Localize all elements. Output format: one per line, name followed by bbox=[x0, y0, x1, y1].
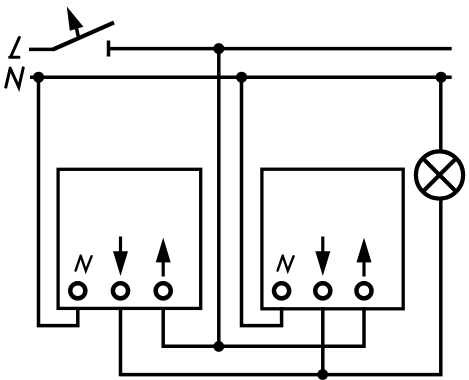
switch S1 actuator arrow bbox=[77, 29, 79, 37]
box unit 1 bbox=[58, 169, 201, 308]
label N (neutral conductor) bbox=[6, 68, 23, 87]
terminal unit1 up bbox=[156, 283, 171, 298]
wire lamp top feed bbox=[439, 77, 443, 152]
wire unit2 up terminal stub bbox=[362, 307, 366, 348]
wire N feed to unit 1 bbox=[39, 77, 78, 325]
node N tap 1 bbox=[33, 72, 44, 83]
arrow down unit 1 bbox=[119, 237, 122, 254]
node N tap 2 bbox=[236, 72, 247, 83]
wire down-terminal bus with lamp drop bbox=[121, 199, 441, 375]
wire unit2 down terminal stub bbox=[321, 307, 325, 376]
terminal unit2 up bbox=[356, 283, 371, 298]
wire unit1 up terminal stub bbox=[161, 307, 165, 348]
label L (line conductor) bbox=[10, 38, 20, 58]
terminal unit1 N bbox=[70, 283, 85, 298]
box unit 2 bbox=[262, 169, 403, 309]
lamp E1 bbox=[416, 151, 463, 198]
wire up-terminal bus bbox=[163, 345, 364, 349]
terminal unit2 down bbox=[315, 283, 330, 298]
terminal unit2 N bbox=[274, 283, 289, 298]
switch S1 fixed contact bar bbox=[107, 41, 111, 57]
terminal unit1 down bbox=[113, 283, 128, 298]
switch S1 blade bbox=[53, 23, 114, 50]
node N tap 3 (lamp branch) bbox=[436, 72, 447, 83]
node L tap junction bbox=[213, 43, 224, 54]
wire L tap vertical bbox=[217, 49, 221, 347]
arrow up unit 1 bbox=[162, 261, 165, 277]
wire L line bbox=[109, 47, 452, 51]
arrow down unit 2 bbox=[321, 237, 324, 254]
wire L stub bbox=[29, 48, 53, 52]
arrow up unit 2 bbox=[362, 261, 365, 277]
label N terminal unit 1 bbox=[76, 256, 92, 271]
label N terminal unit 2 bbox=[278, 256, 294, 271]
wire N feed to unit 2 bbox=[242, 77, 282, 325]
node junction bottom of L tap bbox=[213, 341, 224, 352]
node junction down bus bbox=[317, 369, 328, 380]
wire unit1 down terminal stub bbox=[119, 307, 123, 376]
wire N line bbox=[30, 75, 452, 79]
